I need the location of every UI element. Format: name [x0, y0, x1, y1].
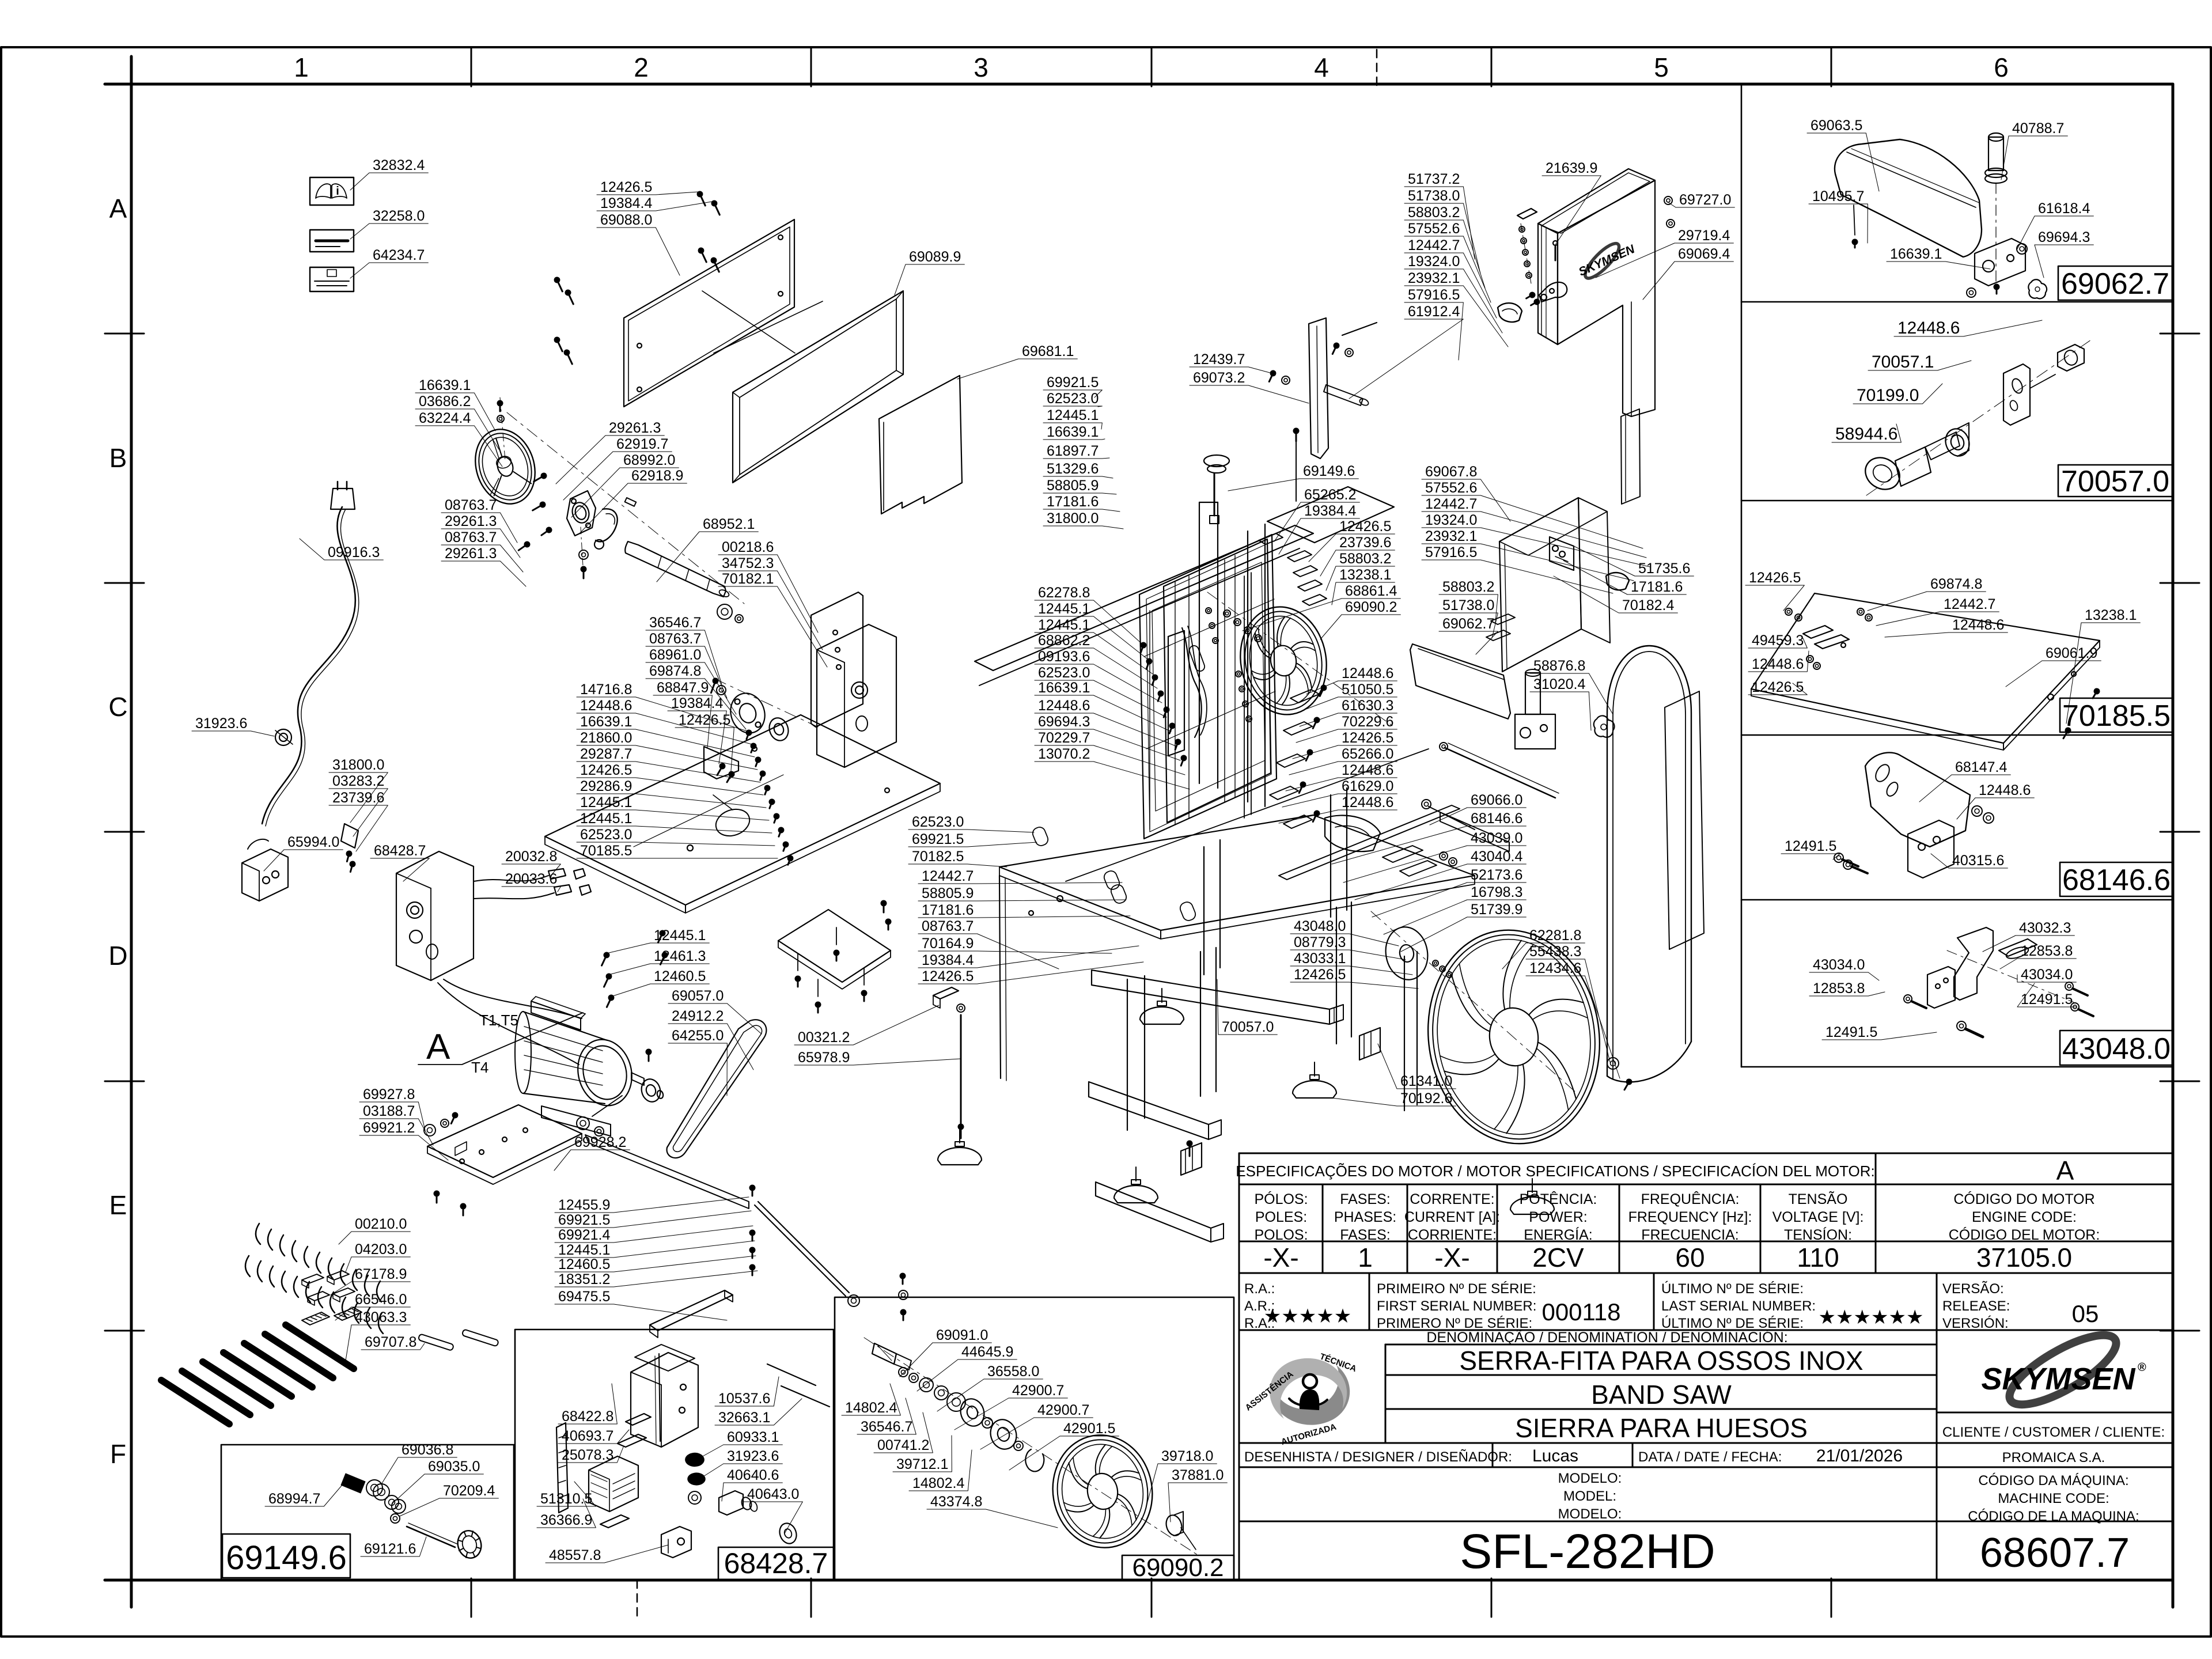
svg-text:08763.7: 08763.7 [922, 918, 974, 934]
label 10495.7 [1809, 188, 1868, 243]
label 03686.2 [415, 393, 499, 449]
svg-text:68847.9: 68847.9 [657, 680, 709, 696]
washer [1524, 261, 1530, 267]
svg-text:43374.8: 43374.8 [930, 1494, 982, 1510]
washer [717, 604, 732, 619]
label 65978.9 [794, 1050, 961, 1066]
label 70229.6 [1296, 714, 1397, 743]
switch box 34752.3 [817, 624, 896, 767]
washer [1967, 288, 1976, 297]
svg-text:69475.5: 69475.5 [558, 1289, 610, 1305]
svg-text:60: 60 [1675, 1243, 1705, 1272]
svg-text:CÓDIGO DE LA MAQUINA:: CÓDIGO DE LA MAQUINA: [1968, 1509, 2139, 1524]
label 42901.5 [1009, 1421, 1119, 1470]
label 39712.1 [893, 1435, 952, 1472]
slide rod 69928.2 [585, 1135, 749, 1209]
plug 09916.3 [331, 488, 355, 509]
svg-text:21639.9: 21639.9 [1546, 160, 1597, 176]
svg-text:PROMAICA S.A.: PROMAICA S.A. [2002, 1450, 2105, 1465]
svg-text:ENERGÍA:: ENERGÍA: [1524, 1226, 1592, 1243]
svg-text:65994.0: 65994.0 [287, 834, 339, 850]
svg-text:MODELO:: MODELO: [1558, 1471, 1622, 1486]
svg-text:68428.7: 68428.7 [724, 1547, 828, 1580]
label 08763.7 [646, 631, 727, 698]
screw [1310, 716, 1321, 730]
window frame 69089.9 [733, 291, 903, 483]
svg-text:24912.2: 24912.2 [672, 1008, 724, 1024]
svg-text:67178.9: 67178.9 [355, 1266, 407, 1282]
label 62278.8 [1035, 585, 1143, 645]
svg-text:69921.5: 69921.5 [558, 1212, 610, 1228]
detail label box 70185.5 [2060, 698, 2172, 732]
wall stiffeners [1175, 582, 1176, 825]
svg-text:12426.5: 12426.5 [679, 712, 730, 728]
label 03188.7 [359, 1103, 433, 1145]
svg-text:2: 2 [634, 52, 649, 82]
circlip 42901.5 [1025, 1449, 1044, 1471]
label 12442.7 [1876, 596, 1999, 626]
label 69057.0 [668, 988, 762, 1034]
label 31923.6 [192, 715, 274, 736]
svg-text:14716.8: 14716.8 [580, 681, 632, 698]
bushing 70199.0 [1942, 426, 1973, 460]
label 68847.9 [653, 680, 712, 748]
label 40693.7 [558, 1428, 629, 1444]
pins 69707.8 [418, 1334, 454, 1351]
svg-text:68992.0: 68992.0 [623, 452, 675, 468]
screw [657, 951, 669, 966]
wheel house shell [1665, 691, 1704, 949]
svg-text:TENSÍON:: TENSÍON: [1784, 1226, 1852, 1243]
key 62918.9 [625, 498, 637, 506]
svg-text:58805.9: 58805.9 [922, 885, 974, 902]
screw [1529, 297, 1541, 308]
svg-text:08763.7: 08763.7 [445, 529, 497, 546]
svg-text:25078.3: 25078.3 [562, 1447, 613, 1463]
label 36546.7 [857, 1398, 916, 1435]
label 12853.8 [2000, 943, 2076, 969]
washer [1239, 686, 1245, 692]
screw [1310, 809, 1321, 823]
svg-text:39718.0: 39718.0 [1161, 1448, 1213, 1464]
pulley 24912.2 [639, 1077, 663, 1104]
svg-text:A: A [109, 194, 127, 224]
label 12442.7 [1404, 237, 1497, 318]
label 58803.2 [1404, 204, 1485, 288]
screw [1622, 1077, 1633, 1091]
washer [1607, 1058, 1619, 1069]
svg-text:36558.0: 36558.0 [987, 1363, 1039, 1380]
svg-text:58803.2: 58803.2 [1339, 551, 1391, 567]
svg-text:69062.7: 69062.7 [1442, 616, 1494, 632]
label 57552.6 [1404, 221, 1491, 302]
din rail 51310.5 [556, 1423, 568, 1513]
svg-text:69073.2: 69073.2 [1193, 370, 1245, 386]
washer [717, 685, 726, 695]
screw [710, 199, 723, 217]
svg-text:69062.7: 69062.7 [2061, 267, 2169, 301]
svg-text:CORRIENTE:: CORRIENTE: [1408, 1227, 1497, 1243]
rear panel 69681.1 [879, 376, 962, 514]
guide block 69062.7 [1975, 238, 2025, 286]
svg-text:29261.3: 29261.3 [445, 513, 497, 529]
svg-text:DESENHISTA / DESIGNER / DISEÑA: DESENHISTA / DESIGNER / DISEÑADOR: [1244, 1449, 1512, 1465]
screw [1525, 290, 1537, 301]
svg-text:19384.4: 19384.4 [922, 952, 974, 968]
label 10537.6 [715, 1377, 779, 1407]
label 34752.3 [718, 555, 823, 650]
label 70199.0 [1853, 384, 1942, 405]
label 43034.0 [2017, 967, 2076, 983]
washer [1957, 1021, 1966, 1031]
svg-text:58805.9: 58805.9 [1047, 478, 1099, 494]
label 24912.2 [668, 1008, 753, 1070]
label 69694.3 [2035, 229, 2093, 278]
label 12445.1 [607, 927, 709, 953]
detail label box 69062.7 [2058, 266, 2172, 300]
washer [366, 1480, 382, 1496]
clamp 40693.7 [626, 1414, 651, 1425]
svg-text:31923.6: 31923.6 [195, 715, 247, 732]
label 09193.6 [1035, 649, 1162, 703]
svg-text:62278.8: 62278.8 [1038, 585, 1090, 601]
washer [1795, 614, 1802, 621]
svg-text:61897.7: 61897.7 [1047, 443, 1099, 459]
washer [1904, 995, 1912, 1003]
wall pads [1031, 825, 1050, 847]
svg-text:69727.0: 69727.0 [1679, 192, 1731, 208]
svg-text:14802.4: 14802.4 [912, 1475, 964, 1491]
label 51739.9 [1401, 902, 1526, 952]
latch 51735.6 [1550, 537, 1574, 570]
svg-text:12448.6: 12448.6 [1979, 782, 2031, 798]
plug 40640.6 [719, 1491, 743, 1515]
saw frame columns [1199, 502, 1200, 783]
washer [497, 415, 504, 422]
washer [1972, 806, 1982, 816]
screw [497, 400, 503, 412]
svg-text:68147.4: 68147.4 [1955, 759, 2007, 775]
label 70182.5 [908, 849, 1007, 867]
screw [1303, 748, 1314, 762]
label 08763.7 [441, 529, 523, 572]
svg-text:57552.6: 57552.6 [1408, 221, 1460, 237]
svg-text:70185.5: 70185.5 [580, 843, 632, 859]
label 29286.9 [577, 778, 766, 808]
screw [714, 762, 726, 777]
label 52173.6 [1372, 867, 1526, 917]
label 12448.6 [1885, 617, 2008, 637]
label 12426.5 [1290, 967, 1418, 988]
door hinge pin 21639.9 [1555, 247, 1556, 260]
svg-text:40640.6: 40640.6 [727, 1467, 779, 1483]
label 62523.0 [1043, 391, 1102, 407]
svg-text:69091.0: 69091.0 [936, 1327, 988, 1343]
label 16639.1 [1887, 246, 1990, 269]
label 32832.4 [350, 157, 428, 190]
wires to terminals [474, 876, 548, 881]
svg-text:19384.4: 19384.4 [1304, 503, 1356, 519]
label 43063.3 [346, 1309, 410, 1361]
svg-text:16639.1: 16639.1 [1038, 680, 1090, 696]
small handwheel [454, 1528, 484, 1560]
svg-text:09916.3: 09916.3 [328, 544, 380, 560]
svg-text:MACHINE CODE:: MACHINE CODE: [1998, 1491, 2109, 1506]
svg-text:69694.3: 69694.3 [2038, 229, 2090, 245]
svg-text:51050.5: 51050.5 [1342, 681, 1393, 698]
plate 40315.6 [1908, 820, 1954, 878]
SKYMSEN logo on door [1573, 233, 1641, 286]
washer [594, 1127, 604, 1136]
washer [1664, 196, 1672, 204]
screw [344, 850, 353, 862]
SKYMSEN logo title block [1981, 1323, 2146, 1417]
svg-text:29261.3: 29261.3 [445, 546, 497, 562]
svg-text:70182.1: 70182.1 [722, 571, 774, 587]
lower frame beams [1066, 749, 1429, 881]
svg-text:12426.5: 12426.5 [1339, 518, 1391, 535]
washer [688, 1491, 701, 1504]
washer [1209, 623, 1215, 628]
svg-text:58803.2: 58803.2 [1408, 204, 1460, 221]
svg-text:31923.6: 31923.6 [727, 1448, 779, 1464]
svg-text:16639.1: 16639.1 [419, 377, 471, 393]
svg-text:69927.8: 69927.8 [363, 1086, 415, 1103]
svg-text:51738.0: 51738.0 [1442, 597, 1494, 613]
label 31923.6 [695, 1448, 782, 1482]
upper door 69069.4 roof [1538, 169, 1655, 233]
label 00210.0 [339, 1216, 410, 1244]
screw [757, 770, 767, 781]
svg-text:ENGINE CODE:: ENGINE CODE: [1972, 1209, 2077, 1225]
label 69067.8 [1422, 464, 1510, 521]
svg-text:17181.6: 17181.6 [922, 902, 974, 918]
svg-text:43063.3: 43063.3 [355, 1309, 407, 1325]
svg-text:44645.9: 44645.9 [961, 1344, 1013, 1360]
label 12460.5 [555, 1256, 756, 1272]
shaft 68952.1 [625, 541, 726, 597]
svg-text:12448.6: 12448.6 [1952, 617, 2004, 633]
label 43048.0 [1290, 918, 1399, 946]
label 04203.0 [346, 1241, 410, 1272]
small table 70164.9 [778, 910, 891, 982]
label 58805.9 [1043, 478, 1116, 494]
svg-text:69036.8: 69036.8 [402, 1442, 453, 1458]
suction feet [1161, 988, 1162, 1002]
wing knob 31020.4 [1594, 715, 1615, 737]
svg-text:12426.5: 12426.5 [1752, 679, 1804, 695]
svg-text:PÓLOS:: PÓLOS: [1254, 1191, 1308, 1207]
rubber block 65978.9 [933, 987, 959, 999]
grommets [685, 1453, 704, 1466]
screw [1994, 284, 2000, 294]
screw [1317, 684, 1328, 698]
saw frame back panel [1164, 539, 1271, 823]
svg-text:68961.0: 68961.0 [649, 647, 701, 663]
upper wheel 69090.2 [1232, 600, 1335, 722]
svg-text:13238.1: 13238.1 [1339, 567, 1391, 583]
svg-text:69707.8: 69707.8 [365, 1334, 416, 1350]
wheel bearing cover 43048.0 [1382, 923, 1432, 983]
hinge bracket [1517, 209, 1537, 219]
washer [1243, 701, 1248, 707]
svg-text:®: ® [2138, 1361, 2146, 1374]
label 65994.0 [264, 834, 343, 871]
washer [1843, 860, 1853, 869]
screw [708, 677, 719, 694]
screw [553, 336, 566, 353]
motor shaft and key [631, 1073, 644, 1085]
svg-text:43048.0: 43048.0 [2062, 1032, 2171, 1066]
68146.6 bracket detail [1865, 752, 1970, 847]
washer [982, 1418, 993, 1428]
svg-text:58803.2: 58803.2 [1442, 579, 1494, 595]
table blade hole [712, 805, 753, 840]
screw [762, 784, 771, 796]
svg-text:000118: 000118 [1541, 1298, 1620, 1325]
label 43039.0 [1343, 830, 1526, 882]
svg-text:VERSIÓN:: VERSIÓN: [1942, 1316, 2009, 1331]
door panel 69088.0 [624, 219, 794, 407]
svg-text:68428.7: 68428.7 [374, 843, 426, 859]
svg-text:03686.2: 03686.2 [419, 393, 471, 410]
svg-text:69874.8: 69874.8 [649, 663, 701, 679]
screw [1178, 754, 1188, 767]
label 16639.1 [577, 714, 755, 757]
screw [564, 289, 577, 306]
svg-text:12491.5: 12491.5 [1825, 1024, 1877, 1040]
svg-text:58944.6: 58944.6 [1835, 425, 1897, 444]
label 68994.7 [265, 1478, 349, 1507]
door hinge rail [1149, 611, 1150, 829]
inner border frame [105, 83, 2173, 86]
screw [900, 1309, 907, 1321]
svg-text:12455.9: 12455.9 [558, 1197, 610, 1213]
svg-text:ÚLTIMO Nº DE SÉRIE:: ÚLTIMO Nº DE SÉRIE: [1661, 1281, 1804, 1297]
foot bracket [600, 1515, 629, 1528]
label 12448.6 [1957, 782, 2034, 819]
label 19384.4 [918, 946, 1139, 968]
label 12460.5 [611, 968, 709, 997]
washer [2017, 244, 2027, 254]
wing knob 69694.3 [2028, 279, 2047, 298]
detail label box 70057.0 [2058, 465, 2172, 497]
svg-text:51735.6: 51735.6 [1638, 560, 1690, 577]
label 18351.2 [555, 1271, 757, 1287]
latch handle 57916.5 [1498, 303, 1522, 322]
label 69061.9 [2006, 645, 2101, 687]
svg-text:68607.7: 68607.7 [1980, 1530, 2130, 1576]
label 12426.5 [1309, 518, 1395, 562]
label 68992.0 [571, 452, 679, 517]
label 12853.8 [1809, 980, 1885, 997]
svg-text:18351.2: 18351.2 [558, 1271, 610, 1287]
svg-text:CURRENT [A]:: CURRENT [A]: [1404, 1209, 1500, 1225]
svg-text:BAND SAW: BAND SAW [1591, 1380, 1732, 1410]
svg-text:32258.0: 32258.0 [373, 208, 425, 224]
guide column 69073.2 [1309, 318, 1328, 459]
set screw black 68994.7 [341, 1474, 365, 1493]
svg-text:T4: T4 [471, 1059, 488, 1076]
svg-text:19384.4: 19384.4 [671, 695, 723, 711]
svg-text:16639.1: 16639.1 [1047, 424, 1099, 440]
saw table plate [545, 715, 940, 905]
washer [947, 1393, 965, 1411]
svg-text:70185.5: 70185.5 [2062, 699, 2171, 733]
washer [1255, 635, 1262, 642]
label 61629.0 [1282, 778, 1397, 807]
cord terminals [341, 824, 358, 848]
svg-text:69921.2: 69921.2 [363, 1120, 415, 1136]
svg-text:LAST SERIAL NUMBER:: LAST SERIAL NUMBER: [1661, 1298, 1816, 1314]
svg-text:3: 3 [974, 52, 988, 82]
tension screw top [1296, 438, 1297, 501]
label 39718.0 [1145, 1448, 1217, 1510]
svg-text:19324.0: 19324.0 [1408, 253, 1460, 270]
svg-text:23932.1: 23932.1 [1425, 528, 1477, 544]
label 62281.8 [1502, 927, 1585, 969]
svg-text:1: 1 [294, 52, 309, 82]
svg-text:69694.3: 69694.3 [1038, 714, 1090, 730]
brush springs 04203.0 [245, 1256, 250, 1277]
label 12455.9 [555, 1197, 749, 1213]
label 03283.2 [329, 773, 388, 836]
svg-text:CORRENTE:: CORRENTE: [1410, 1191, 1494, 1207]
guide rod [1445, 748, 1555, 798]
label 08763.7 [441, 497, 517, 543]
relay 36366.9 [589, 1456, 638, 1512]
screw [1266, 369, 1277, 383]
label 58803.2 [1439, 579, 1498, 622]
svg-text:69921.5: 69921.5 [912, 831, 964, 847]
fence rail bar [1279, 805, 1460, 880]
svg-text:SFL-282HD: SFL-282HD [1460, 1524, 1715, 1578]
svg-text:31800.0: 31800.0 [1047, 510, 1099, 527]
svg-text:PRIMERO Nº DE SÉRIE:: PRIMERO Nº DE SÉRIE: [1377, 1316, 1532, 1331]
svg-text:12448.6: 12448.6 [580, 698, 632, 714]
screw [1155, 690, 1165, 702]
label 13238.1 [1332, 567, 1395, 605]
main explosion axes [507, 412, 744, 604]
svg-text:12460.5: 12460.5 [558, 1256, 610, 1272]
bracket 25078.3 [618, 1434, 646, 1447]
label 64255.0 [668, 1028, 727, 1096]
bearing flange 62919.7 [567, 491, 596, 536]
svg-text:69063.5: 69063.5 [1810, 118, 1862, 134]
svg-text:PHASES:: PHASES: [1334, 1209, 1396, 1225]
svg-text:62919.7: 62919.7 [616, 436, 668, 452]
svg-text:69149.6: 69149.6 [1303, 463, 1355, 479]
svg-text:70182.5: 70182.5 [912, 849, 964, 865]
motor 37105.0 [571, 1034, 638, 1112]
svg-text:49459.3: 49459.3 [1752, 632, 1804, 649]
svg-text:40643.0: 40643.0 [747, 1486, 799, 1502]
label 65265.2 [1274, 487, 1359, 541]
label 48557.8 [546, 1545, 668, 1563]
svg-text:69874.8: 69874.8 [1930, 576, 1982, 592]
latch lever 23932.1 [1539, 282, 1567, 302]
head top plate [1267, 487, 1394, 543]
contactor box 68422.8 [631, 1353, 698, 1447]
screw [881, 900, 887, 913]
label 13070.2 [1035, 746, 1190, 789]
screw [1143, 657, 1153, 670]
screw [646, 1049, 652, 1062]
washer [1440, 966, 1445, 972]
washer [934, 1386, 948, 1400]
svg-text:RELEASE:: RELEASE: [1942, 1298, 2010, 1314]
label 61618.4 [2017, 200, 2093, 249]
